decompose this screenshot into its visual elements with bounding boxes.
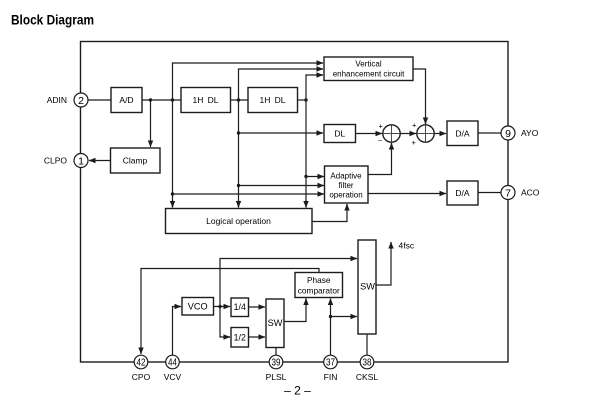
svg-text:SW: SW (360, 282, 375, 292)
wire VCO node up to SW tall input (220, 259, 357, 307)
wire SW tall bottom to pin 38 CKSL (366, 334, 368, 355)
wire FIN branch to SW tall input 2 (331, 316, 358, 318)
wire vertical enhancement output to adder 2 top (413, 69, 426, 124)
block SW small (266, 299, 284, 348)
svg-text:1/2: 1/2 (234, 333, 246, 343)
wire tap1 vertical and to vertical enhancement input 1 (173, 63, 324, 208)
wire SW tall output to 4fsc (376, 242, 391, 285)
arrow into logical operation from tap1 (172, 200, 174, 208)
arrow into vertical enhancement input 2 (316, 68, 323, 70)
svg-text:DL: DL (334, 129, 345, 139)
svg-text:ACO: ACO (521, 188, 540, 198)
wire tap2 vertical and to vertical enhancement input 2 (239, 69, 324, 208)
arrow into vertical enhancement input 1 (316, 62, 323, 64)
svg-text:+: + (412, 138, 417, 147)
arrow up into adaptive filter bottom (346, 204, 348, 211)
svg-text:ADIN: ADIN (47, 95, 67, 105)
block phase comparator (295, 273, 343, 298)
wire DL output to adder 1 (356, 133, 383, 135)
wire tap1 branch to adaptive filter input 3 (173, 193, 325, 195)
svg-text:37: 37 (326, 358, 335, 369)
wire VCO node down to 1/2 (220, 307, 230, 338)
block 1/4 divider (231, 298, 249, 317)
svg-text:VCV: VCV (164, 372, 182, 382)
svg-text:filter: filter (338, 181, 353, 190)
pin 2 ADIN (47, 93, 88, 107)
arrow into SW tall input 1 (350, 258, 357, 260)
node dot tap3 on main line (304, 98, 307, 101)
arrow up 4fsc (390, 242, 392, 249)
adder 2 (412, 120, 435, 147)
wire A/D output to 1H DL 1 (142, 99, 181, 101)
wire tap3 vertical and to vertical enhancement input 3 (306, 75, 323, 208)
svg-text:CLPO: CLPO (44, 156, 68, 166)
svg-text:PLSL: PLSL (266, 372, 287, 382)
wire A/D branch down to Clamp (150, 100, 152, 147)
svg-text:+: + (412, 120, 417, 129)
svg-text:CKSL: CKSL (356, 372, 378, 382)
svg-text:7: 7 (505, 187, 511, 199)
svg-text:SW: SW (268, 318, 283, 328)
block logical operation (166, 209, 313, 234)
wire tap2 branch to adaptive filter input 2 (239, 185, 325, 187)
node dot tap1 on main line (171, 98, 174, 101)
wire D/A 2 to pin 7 (478, 192, 501, 194)
chip boundary box (81, 42, 509, 363)
wire 1H DL 2 to node (298, 99, 307, 101)
arrow into VCO (174, 306, 181, 308)
wire SW bottom to pin 39 PLSL (275, 348, 277, 356)
block Clamp (111, 148, 161, 173)
wire ADIN to A/D (88, 99, 111, 101)
block adaptive filter operation (325, 166, 369, 203)
wire pin 37 FIN up to phase comparator input 2 (330, 299, 332, 356)
arrow into logical operation from tap2 (238, 200, 240, 208)
adder 1 (378, 121, 400, 145)
node dot tap2 on main line (237, 98, 240, 101)
svg-text:38: 38 (363, 358, 372, 369)
svg-text:1: 1 (78, 155, 84, 167)
svg-text:2: 2 (78, 95, 84, 107)
block 1H DL first (181, 88, 231, 113)
wire 1H DL 1 to 1H DL 2 (231, 99, 249, 101)
arrow up into adder 1 (391, 143, 393, 150)
pin 7 ACO (501, 186, 540, 200)
wire VCO output to 1/4 (214, 306, 231, 308)
svg-text:A/D: A/D (119, 95, 133, 105)
svg-text:44: 44 (168, 358, 177, 369)
svg-text:Block Diagram: Block Diagram (11, 12, 94, 28)
wire tap3 branch to adaptive filter input 1 (306, 176, 324, 178)
svg-text:– 2 –: – 2 – (284, 384, 311, 398)
arrow up into phase comparator input 1 (305, 299, 307, 306)
svg-text:operation: operation (329, 191, 362, 200)
svg-text:42: 42 (137, 358, 146, 369)
pin 1 CLPO (44, 154, 88, 168)
wire adaptive filter output up to adder 1 bottom (368, 143, 392, 175)
wire pin 44 VCV to VCO (173, 307, 182, 356)
block 1H DL second (248, 88, 298, 113)
node dot tap3 adaptive branch (304, 175, 307, 178)
block VCO (182, 298, 214, 316)
svg-text:CPO: CPO (132, 372, 151, 382)
block 1/2 divider (231, 328, 249, 348)
arrow into vertical enhancement input 3 (316, 74, 323, 76)
arrow down into pin 42 (140, 347, 142, 354)
svg-text:D/A: D/A (455, 188, 470, 198)
arrow up into phase comparator input 2 (330, 299, 332, 306)
svg-text:enhancement circuit: enhancement circuit (333, 70, 405, 79)
wire phase comparator output to pin 42 CPO (141, 269, 319, 355)
pin 9 AYO (501, 126, 539, 140)
wire SW output up to phase comparator (284, 299, 306, 322)
wire Clamp output to pin 1 (89, 160, 111, 162)
svg-text:1/4: 1/4 (234, 302, 246, 312)
wire adaptive filter output to D/A 2 (368, 193, 446, 195)
wire D/A 1 to pin 9 (478, 132, 501, 134)
node dot VCO output (218, 305, 221, 308)
node dot tap2 adaptive branch (237, 184, 240, 187)
svg-text:+: + (379, 121, 384, 130)
wire 1/2 output to SW (249, 336, 266, 338)
svg-text:AYO: AYO (521, 128, 539, 138)
block DL (324, 125, 356, 143)
svg-text:Phase: Phase (307, 275, 331, 285)
pin 44 VCV (164, 355, 182, 382)
svg-text:−: − (378, 136, 383, 145)
svg-text:1H DL: 1H DL (260, 95, 286, 105)
arrow into logical operation from tap3 (305, 200, 307, 208)
svg-text:9: 9 (505, 128, 511, 140)
wire adder 1 to adder 2 (400, 133, 416, 135)
pin 38 CKSL (356, 355, 378, 382)
svg-text:1H DL: 1H DL (193, 95, 219, 105)
block D/A upper (447, 121, 478, 146)
svg-text:FIN: FIN (324, 372, 338, 382)
block A/D (111, 88, 142, 113)
pin 42 CPO (132, 355, 151, 382)
wire tap2 branch to DL (239, 132, 324, 134)
pin 37 FIN (324, 355, 338, 382)
node dot FIN branch (329, 315, 332, 318)
svg-text:comparator: comparator (298, 286, 340, 296)
node dot tap2 DL branch (237, 131, 240, 134)
wire logical operation output to adaptive filter bottom (312, 204, 347, 222)
svg-text:Adaptive: Adaptive (330, 172, 362, 181)
node dot tap1 adaptive branch (171, 192, 174, 195)
svg-text:39: 39 (272, 358, 281, 369)
block vertical enhancement circuit (324, 57, 413, 81)
svg-text:4fsc: 4fsc (399, 241, 415, 251)
wire 1/4 output to SW (249, 306, 266, 308)
svg-text:Vertical: Vertical (355, 60, 381, 69)
svg-text:VCO: VCO (188, 302, 208, 312)
pin 39 PLSL (266, 355, 287, 382)
arrow into 1/2 (223, 336, 230, 338)
arrow down into adder 2 (425, 117, 427, 124)
node dot A/D output to clamp (149, 98, 152, 101)
svg-text:Logical operation: Logical operation (206, 216, 271, 226)
block D/A lower (447, 181, 478, 205)
block SW tall (358, 240, 376, 334)
wire adder 2 to D/A 1 (434, 133, 446, 135)
svg-text:Clamp: Clamp (123, 156, 148, 166)
svg-text:D/A: D/A (455, 129, 470, 139)
